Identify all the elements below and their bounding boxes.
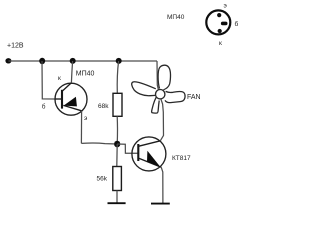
ground GND1 (108, 202, 126, 204)
resistor R1 68k (113, 93, 122, 116)
wire main +12V rail (8, 60, 157, 62)
pinout pin b tab (221, 22, 228, 26)
junction node 1 (39, 58, 45, 64)
transistor Q2 emitter arrow (147, 151, 160, 167)
wire emitter to node (81, 142, 117, 145)
wire 68k top (117, 61, 118, 93)
svg-text:МП40: МП40 (167, 14, 185, 21)
junction node 4 (114, 141, 120, 148)
pinout pin e dot (217, 13, 221, 17)
svg-text:МП40: МП40 (76, 71, 95, 78)
wire 68k bottom (116, 116, 118, 144)
svg-text:68k: 68k (98, 103, 109, 110)
junction node 2 (70, 58, 76, 64)
fan blade right (165, 91, 185, 102)
terminal dot (5, 58, 11, 63)
fan hub (156, 90, 165, 99)
transistor Q1 collector diag (62, 83, 71, 91)
svg-text:э: э (84, 115, 88, 122)
svg-text:б: б (235, 20, 239, 28)
resistor R2 56k (113, 167, 122, 191)
fan blade left (132, 82, 156, 96)
wire base feed MP40 (42, 61, 55, 99)
ground GND2 (151, 203, 170, 205)
transistor Q2 base bar (137, 144, 139, 161)
wire node to base KT817 (117, 144, 138, 153)
svg-text:56k: 56k (97, 175, 108, 182)
wire rail corner down to fan (157, 61, 159, 90)
svg-text:к: к (58, 75, 61, 82)
svg-text:э: э (224, 3, 228, 10)
wire collector MP40 (71, 61, 72, 83)
transistor Q2 collector diag (139, 141, 161, 146)
wire emitter MP40 down (80, 111, 82, 144)
pinout case circle (206, 10, 230, 34)
transistor Q1 base bar (61, 90, 63, 109)
wire 56k top (116, 144, 118, 167)
transistor Q2 KT817 circle (132, 137, 166, 171)
svg-text:FAN: FAN (187, 94, 201, 101)
wire emitter KT817 to ground (161, 167, 163, 203)
pinout pin k dot (218, 29, 222, 33)
junction node 3 (116, 58, 122, 64)
transistor Q1 emitter arrow (64, 97, 77, 107)
svg-text:+12В: +12В (7, 43, 24, 50)
wire 56k bottom (116, 191, 118, 203)
svg-text:КТ817: КТ817 (172, 155, 191, 162)
transistor Q1 MP40 circle (55, 83, 87, 115)
transistor Q1 emitter diag (63, 105, 81, 110)
fan blade bottom (152, 97, 160, 113)
transistor Q2 emitter diag (139, 158, 161, 167)
transistor Q1 base lead (55, 98, 62, 100)
wire fan to collector KT817 (160, 99, 163, 141)
svg-text:б: б (42, 102, 46, 110)
svg-text:к: к (219, 40, 222, 47)
fan blade top (158, 65, 170, 90)
